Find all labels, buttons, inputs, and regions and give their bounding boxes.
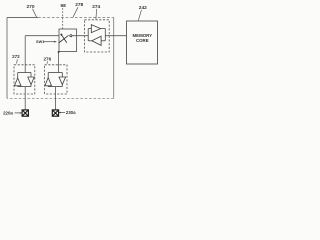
arrow to pad 230a (59, 112, 65, 114)
buffer triangle (left-pointing) in 274 (92, 36, 101, 45)
node: output rail of 274 (104, 29, 106, 41)
stub to driver input (30, 73, 32, 78)
stub driver output (30, 85, 32, 87)
wire stub to bottom buffer input (101, 40, 105, 42)
wire: switch down to driver 276 (58, 52, 60, 73)
wire: left rail to switch (25, 35, 59, 37)
leader for 276 (46, 61, 49, 63)
buffer triangle (right-pointing) in 274 (91, 25, 100, 33)
bottom rail in 272 (18, 86, 31, 88)
control line 68 (dashed leader) (62, 8, 64, 29)
wire: rail down to driver 272 (24, 36, 26, 73)
wire: 272 down to pad 220a (24, 87, 26, 110)
leader for 274 (95, 9, 98, 20)
leader for 242 (138, 10, 141, 21)
leader for 272 (16, 59, 19, 63)
svg-text:272: 272 (12, 54, 20, 59)
svg-text:242: 242 (139, 5, 147, 11)
bottom rail in 276 (48, 86, 62, 88)
driver triangle (down-pointing) in 276 (59, 77, 66, 85)
wire stub from top buffer output (101, 28, 106, 30)
svg-text:270: 270 (26, 4, 34, 10)
wire stub to top buffer input (88, 28, 91, 30)
node: input rail of 274 (87, 29, 89, 41)
switch output terminal circle (70, 35, 72, 37)
wire: 276 down to pad 230a (54, 87, 56, 110)
arrow SW1 (44, 41, 57, 43)
arrow to pad 220a (15, 112, 22, 114)
switch blade 2 (59, 35, 69, 43)
wire: switch to buffer 274 (72, 35, 88, 37)
pad 230a (crossed square) (52, 110, 58, 116)
switch box SW1 (59, 29, 77, 52)
receiver triangle (up-pointing) in 276 (45, 78, 52, 86)
driver triangle (down-pointing) in 272 (28, 77, 35, 85)
top rail in 276 (48, 72, 62, 74)
memory core box 242 (127, 21, 158, 64)
switch blade 1 (61, 35, 66, 43)
wire: buffer 274 to memory core (105, 35, 126, 37)
svg-text:220a: 220a (3, 111, 13, 116)
stub driver output (61, 85, 63, 87)
buffer block 274 (dashed box) (84, 20, 109, 52)
stub to receiver output (17, 73, 19, 79)
leader for 270 (33, 9, 37, 17)
stub receiver input (47, 85, 49, 88)
switch input terminal dot (60, 34, 62, 36)
svg-text:CORE: CORE (136, 38, 149, 43)
I/O driver block 272 (dashed box) (14, 65, 35, 94)
wire stub from bottom buffer output (88, 40, 92, 42)
svg-text:68: 68 (61, 3, 67, 9)
stub to driver input (61, 73, 63, 78)
pad 220a (crossed square) (22, 110, 28, 116)
top rail in 272 (18, 72, 31, 74)
I/O driver block 276 (dashed box) (45, 65, 67, 94)
block 270 outer rectangle (7, 18, 114, 99)
junction dot on switch box bottom (58, 51, 60, 53)
svg-text:230a: 230a (66, 110, 76, 115)
leader for 278 (73, 7, 78, 17)
stub to receiver output (47, 73, 49, 78)
svg-text:276: 276 (43, 57, 51, 62)
svg-text:274: 274 (92, 4, 100, 10)
stub receiver input (17, 85, 19, 88)
svg-text:278: 278 (75, 2, 83, 8)
receiver triangle (up-pointing) in 272 (14, 78, 21, 86)
